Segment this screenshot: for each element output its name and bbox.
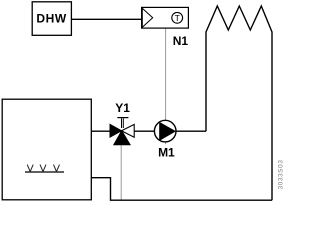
- svg-text:N1: N1: [173, 34, 189, 48]
- svg-text:T: T: [175, 13, 181, 23]
- svg-text:3033S03: 3033S03: [277, 160, 284, 190]
- svg-text:DHW: DHW: [36, 12, 67, 26]
- svg-text:Y1: Y1: [115, 101, 130, 115]
- svg-text:M1: M1: [158, 146, 175, 160]
